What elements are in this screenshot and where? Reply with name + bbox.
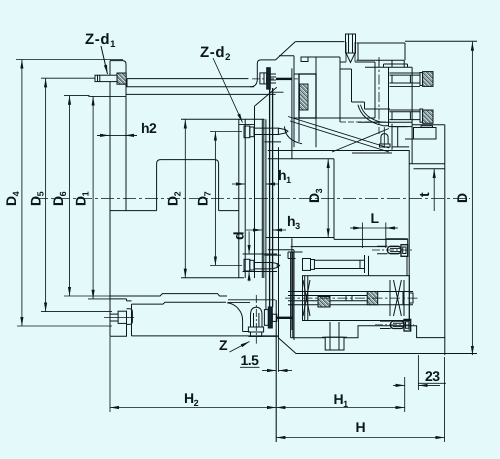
right flange block [409, 125, 445, 355]
housing left face [278, 147, 280, 339]
housing notch [301, 57, 308, 62]
dim L [350, 227, 398, 229]
housing top edge and D top extension [295, 41, 477, 60]
bottom hex bolt [322, 322, 347, 350]
svg-text:h2: h2 [141, 120, 157, 136]
right bolt B head [423, 110, 433, 123]
dim D right [471, 42, 473, 356]
right bolt B washer [420, 109, 423, 122]
hole lines around mirror bolt [243, 254, 277, 272]
bolt Z-d2 mirror lower [244, 259, 280, 271]
centerline main horizontal [35, 198, 470, 200]
hub top and bottom face [181, 119, 265, 277]
right bolt B shank [389, 112, 420, 120]
dim h1 [232, 183, 245, 185]
leader Z-d1 [101, 46, 108, 74]
plate rib top [127, 79, 248, 87]
pocket chamfer slant [255, 87, 277, 106]
bolt Z-d2 [244, 126, 288, 138]
pocket floor right lines [352, 152, 392, 154]
housing interior steps [299, 57, 390, 147]
housing bearing inner slab [300, 84, 309, 110]
housing internal wall verticals [279, 56, 299, 159]
right pocket verticals [392, 124, 409, 150]
lower plate top lines [110, 294, 227, 296]
disc bottom section dark [268, 307, 272, 328]
disc springs right [390, 280, 404, 316]
centerline bolt circle vertical (dash-dot) [378, 57, 380, 134]
svg-text:1.5: 1.5 [241, 352, 260, 368]
lower arm bolt [303, 259, 365, 271]
dim D3 [266, 159, 335, 240]
dim D7 [210, 132, 242, 266]
actuator centerline [285, 297, 420, 299]
actuator rod left nut [318, 297, 330, 308]
bracket bolt thick shank [276, 78, 292, 80]
housing fillet arc [358, 105, 383, 126]
interior dash line [340, 121, 390, 123]
dim D5 [41, 78, 112, 311]
right bolt A shank [389, 75, 420, 83]
left flange hub outline [110, 61, 126, 337]
lower flange outer profile [110, 304, 277, 336]
bolt Z-d1 shank cap lines [98, 75, 100, 81]
bottom outline [278, 338, 477, 354]
leader Z-d2 [213, 58, 243, 123]
actuator rod [288, 292, 413, 305]
plug bolt at flange bottom [110, 314, 118, 321]
dim H2 [109, 336, 111, 412]
svg-text:Z: Z [219, 337, 228, 353]
bolt Z-d1 shank [95, 75, 117, 81]
dim 1.5 [240, 366, 260, 368]
dim D1 [88, 96, 126, 299]
plate surface [126, 86, 254, 88]
svg-text:L: L [371, 210, 380, 226]
disc springs left [303, 280, 310, 316]
lower plate bottom with band [132, 302, 227, 304]
arm underside lines bottom (mirror) [265, 239, 408, 255]
hub shoulder line [239, 124, 255, 126]
housing top slant [276, 42, 296, 60]
lower arm left face [291, 252, 293, 338]
lower right cap screw top [388, 245, 408, 257]
brake disc faces [270, 88, 273, 307]
svg-text:23: 23 [425, 368, 440, 384]
actuator nut [367, 292, 378, 305]
dim h2 [97, 134, 137, 136]
svg-text:d: d [231, 232, 247, 240]
right step block [414, 128, 437, 140]
vertical bolt right inner [380, 127, 391, 148]
top bracket bolt nut and washers [260, 73, 264, 84]
bracket bolt centerline [252, 78, 298, 80]
housing right step top edge [412, 124, 445, 126]
arm underside lines top [265, 142, 410, 159]
bore line right of keyway [219, 210, 239, 212]
vertical guide bolt at disc bottom [248, 307, 263, 336]
dim H [444, 357, 446, 442]
dim H1 [276, 407, 405, 409]
housing inner wall lower [292, 238, 294, 340]
guide bolt centerline [255, 295, 257, 344]
cone spring diagonals [288, 117, 389, 153]
svg-text:D: D [454, 193, 470, 203]
lower plate corner fillet [227, 303, 243, 332]
disc top section (dark) [267, 68, 271, 89]
bracket bolt threaded end [270, 74, 276, 83]
housing cylinder block right [389, 67, 413, 164]
hub pack verticals [255, 106, 266, 310]
hub bottom extra lines [228, 300, 276, 303]
housing top right steps [357, 60, 408, 67]
plate bottom [126, 93, 276, 95]
svg-text:H: H [356, 419, 366, 435]
dim 23 [418, 382, 446, 384]
housing bearing rect [299, 74, 316, 118]
left flange hub bottom bore line [110, 210, 157, 212]
dim D6 [64, 96, 110, 296]
bottom outline under disc [248, 300, 277, 336]
washer at disc bottom [264, 310, 268, 326]
dim D4 [16, 60, 123, 327]
right step block raised lip [421, 126, 433, 128]
nut right of disc bottom [272, 314, 277, 321]
thick shank lower [277, 317, 293, 319]
dim D2 [184, 119, 186, 277]
lower right cap screw bottom [391, 319, 411, 331]
disc hub outline [239, 119, 245, 278]
dim d [248, 231, 250, 254]
dim h3 [246, 229, 262, 231]
bracket top outline [250, 60, 276, 87]
leader Z [230, 342, 250, 353]
right bolt A washer [420, 73, 423, 86]
right bolt A head [423, 72, 433, 87]
dim t [433, 169, 435, 211]
top socket bolt [346, 34, 356, 63]
actuator rod end [403, 292, 413, 305]
keyway profile [157, 160, 219, 211]
right step block base line [405, 138, 436, 140]
lower arm bolt seat [288, 247, 386, 276]
disc top step line [269, 91, 283, 93]
bolt Z-d1 head [117, 73, 126, 84]
lower actuator cylinder [303, 276, 410, 321]
arm underside fillet [285, 126, 303, 143]
